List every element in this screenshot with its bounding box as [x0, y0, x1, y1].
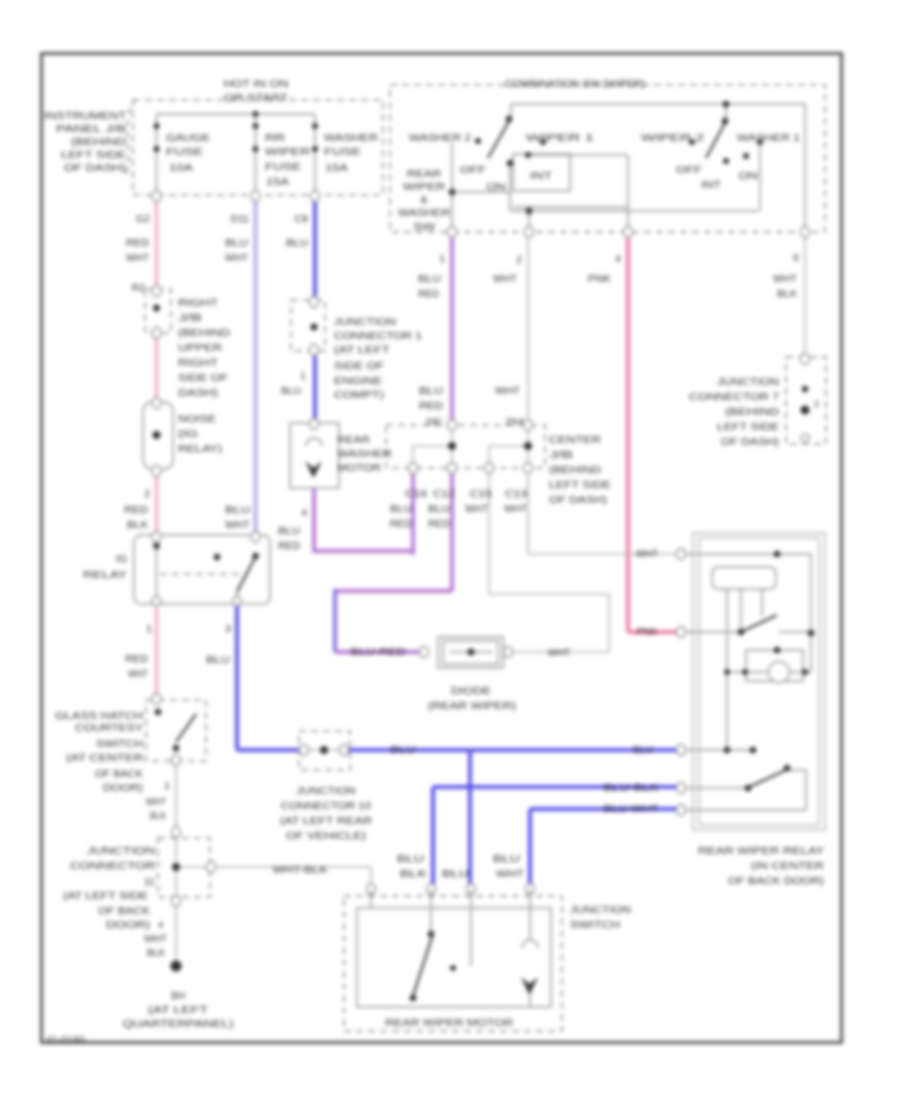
svg-text:DOOR): DOOR)	[103, 782, 143, 794]
svg-text:JUNCTION: JUNCTION	[87, 845, 155, 857]
svg-text:J/B: J/B	[549, 449, 573, 461]
svg-text:CENTER: CENTER	[549, 434, 601, 446]
svg-text:DOOR): DOOR)	[106, 919, 150, 931]
svg-text:REAR: REAR	[407, 168, 441, 180]
svg-text:C13: C13	[505, 488, 527, 500]
svg-text:C16: C16	[405, 488, 427, 500]
svg-text:2: 2	[144, 488, 150, 500]
svg-text:3: 3	[225, 623, 231, 635]
svg-text:RR: RR	[265, 132, 286, 144]
svg-text:DIODE: DIODE	[451, 685, 491, 697]
svg-text:PNK: PNK	[588, 273, 611, 285]
svg-text:(IN CENTER: (IN CENTER	[751, 860, 824, 872]
svg-text:WHT-BLK: WHT-BLK	[273, 865, 328, 876]
svg-text:NOISE: NOISE	[178, 413, 216, 425]
svg-text:OF BACK: OF BACK	[95, 768, 143, 780]
svg-text:BLK: BLK	[400, 868, 427, 880]
svg-text:15A: 15A	[266, 176, 289, 188]
svg-text:CONNECTOR 1: CONNECTOR 1	[334, 330, 422, 342]
svg-text:HOT IN ON: HOT IN ON	[224, 78, 289, 90]
svg-text:RED: RED	[278, 540, 300, 552]
svg-text:11: 11	[144, 876, 155, 888]
svg-text:BLK: BLK	[147, 947, 165, 959]
svg-text:COURTESY: COURTESY	[75, 722, 143, 734]
svg-text:RED: RED	[124, 504, 148, 516]
svg-text:WHT: WHT	[548, 648, 570, 659]
svg-text:FUSE: FUSE	[166, 146, 203, 158]
svg-text:BLU: BLU	[225, 504, 250, 516]
svg-text:JUNCTION: JUNCTION	[297, 785, 356, 797]
svg-text:LEFT SIDE: LEFT SIDE	[549, 479, 611, 491]
svg-text:GAUGE: GAUGE	[166, 132, 210, 144]
svg-text:RED: RED	[390, 518, 412, 530]
svg-text:BLU-BLK: BLU-BLK	[604, 783, 659, 794]
svg-text:UPPER: UPPER	[178, 342, 222, 354]
svg-text:&: &	[420, 194, 427, 206]
svg-text:REAR WIPER MOTOR: REAR WIPER MOTOR	[385, 1017, 513, 1029]
svg-text:1: 1	[146, 623, 152, 635]
svg-text:INT: INT	[530, 170, 553, 182]
svg-text:WIPER: WIPER	[265, 146, 311, 158]
svg-text:BLK: BLK	[777, 288, 797, 300]
svg-text:2: 2	[814, 399, 819, 409]
svg-text:G2: G2	[136, 213, 150, 225]
svg-text:INT: INT	[701, 179, 722, 191]
svg-text:FUSE: FUSE	[265, 161, 301, 173]
svg-text:RELAY: RELAY	[83, 569, 127, 581]
svg-text:41-0160: 41-0160	[46, 1034, 85, 1046]
svg-text:C8: C8	[295, 213, 309, 225]
svg-text:ON: ON	[487, 181, 506, 193]
svg-text:WASHER: WASHER	[324, 132, 378, 144]
svg-text:BLU: BLU	[278, 525, 300, 537]
svg-text:SWITCH: SWITCH	[570, 919, 620, 931]
svg-text:REAR: REAR	[337, 434, 370, 446]
svg-text:BLU: BLU	[206, 654, 230, 666]
svg-text:WHT: WHT	[126, 252, 150, 264]
svg-text:BLK: BLK	[127, 519, 148, 531]
svg-text:WHT: WHT	[225, 252, 249, 264]
svg-text:OR START: OR START	[224, 92, 289, 104]
svg-text:OFF: OFF	[460, 164, 486, 176]
svg-text:(AT CENTER: (AT CENTER	[66, 752, 144, 764]
svg-text:2: 2	[516, 254, 522, 266]
svg-text:WHT: WHT	[504, 503, 528, 515]
svg-text:BLU: BLU	[225, 237, 248, 249]
svg-text:RED: RED	[428, 518, 450, 530]
svg-text:SIDE OF: SIDE OF	[334, 360, 384, 372]
svg-text:LEFT SIDE: LEFT SIDE	[717, 421, 779, 433]
svg-text:ENGINE: ENGINE	[334, 375, 382, 387]
svg-text:SIDE OF: SIDE OF	[178, 372, 228, 384]
svg-text:DASH): DASH)	[178, 387, 218, 399]
svg-text:BLU: BLU	[428, 503, 450, 515]
svg-text:RED: RED	[419, 400, 443, 412]
svg-text:OF BACK: OF BACK	[98, 905, 150, 917]
svg-text:D11: D11	[231, 213, 250, 225]
svg-text:LEFT SIDE: LEFT SIDE	[61, 149, 126, 161]
svg-text:1: 1	[300, 370, 306, 382]
svg-text:BLU-WHT: BLU-WHT	[604, 804, 659, 815]
svg-text:C12: C12	[433, 488, 455, 500]
svg-text:WHT: WHT	[636, 549, 658, 560]
svg-text:BLU: BLU	[281, 385, 301, 397]
svg-text:10A: 10A	[169, 162, 193, 174]
svg-text:OF DASH): OF DASH)	[549, 494, 607, 506]
svg-text:(REAR WIPER): (REAR WIPER)	[428, 700, 516, 712]
svg-text:WIPER 1: WIPER 1	[526, 132, 594, 144]
svg-text:JUNCTION: JUNCTION	[717, 376, 779, 388]
svg-text:JUNCTION: JUNCTION	[570, 904, 631, 916]
svg-text:ON: ON	[739, 170, 758, 182]
svg-text:WIPER: WIPER	[403, 181, 446, 193]
svg-text:REAR WIPER RELAY: REAR WIPER RELAY	[698, 845, 824, 857]
svg-text:BLU: BLU	[493, 853, 520, 865]
svg-text:WASHER: WASHER	[398, 207, 450, 219]
svg-text:(BEHIND: (BEHIND	[549, 464, 601, 476]
svg-text:JUNCTION: JUNCTION	[334, 316, 396, 328]
svg-text:6: 6	[793, 252, 799, 264]
svg-text:15A: 15A	[325, 162, 348, 174]
svg-text:SWITCH: SWITCH	[96, 738, 143, 750]
svg-text:RIGHT: RIGHT	[178, 357, 219, 369]
svg-text:R2: R2	[132, 282, 146, 294]
svg-text:(AT LEFT SIDE: (AT LEFT SIDE	[63, 890, 148, 902]
svg-text:COMBINATION SW (WIPER): COMBINATION SW (WIPER)	[505, 78, 645, 90]
svg-text:OF DASH): OF DASH)	[721, 436, 779, 448]
svg-text:OF BACK DOOR): OF BACK DOOR)	[728, 875, 824, 887]
svg-text:4: 4	[158, 920, 163, 930]
svg-text:WHT: WHT	[495, 385, 521, 397]
svg-text:1: 1	[164, 780, 170, 792]
svg-text:GLASS HATCH: GLASS HATCH	[55, 710, 143, 722]
svg-text:RED: RED	[418, 288, 439, 300]
svg-text:WHT: WHT	[496, 868, 525, 880]
svg-text:1: 1	[439, 253, 445, 265]
svg-text:WHT: WHT	[493, 273, 518, 285]
svg-text:2E: 2E	[425, 417, 443, 427]
svg-text:OF DASH): OF DASH)	[64, 162, 126, 174]
svg-text:(BEHIND: (BEHIND	[178, 327, 230, 339]
svg-text:BLU: BLU	[390, 503, 412, 515]
svg-text:BLU: BLU	[286, 237, 308, 249]
svg-text:RED: RED	[125, 653, 148, 665]
svg-text:(AT LEFT REAR: (AT LEFT REAR	[280, 815, 372, 827]
svg-text:BLU: BLU	[391, 745, 416, 756]
svg-text:(AT LEFT: (AT LEFT	[334, 344, 391, 356]
svg-text:BLU: BLU	[419, 385, 443, 397]
svg-text:FUSE: FUSE	[324, 146, 361, 158]
svg-text:SW: SW	[413, 221, 435, 233]
svg-text:OF VEHICLE): OF VEHICLE)	[286, 830, 366, 842]
svg-text:BLU: BLU	[397, 853, 424, 865]
svg-text:WHT: WHT	[128, 668, 148, 680]
svg-text:INSTRUMENT: INSTRUMENT	[44, 110, 127, 122]
svg-text:CONNECTOR: CONNECTOR	[70, 860, 156, 872]
svg-text:WASHER 2: WASHER 2	[409, 132, 471, 144]
svg-text:MOTOR: MOTOR	[337, 462, 381, 474]
svg-text:WHT: WHT	[465, 503, 489, 515]
svg-text:CONNECTOR 10: CONNECTOR 10	[281, 800, 371, 812]
svg-text:WIPER 2: WIPER 2	[641, 132, 704, 144]
svg-text:WHT: WHT	[146, 796, 166, 808]
svg-text:OFF: OFF	[676, 164, 702, 176]
svg-text:WASHER: WASHER	[337, 448, 392, 460]
svg-text:(IG: (IG	[178, 428, 198, 440]
svg-text:IG: IG	[116, 553, 127, 565]
svg-text:BLK: BLK	[150, 810, 166, 822]
svg-text:RED: RED	[126, 237, 149, 249]
svg-text:BLU: BLU	[418, 273, 441, 285]
svg-text:PNK: PNK	[637, 626, 658, 638]
svg-text:BH: BH	[171, 990, 185, 1002]
svg-text:J/B: J/B	[178, 312, 202, 324]
svg-text:COMPT): COMPT)	[334, 389, 384, 401]
svg-text:BLU-RED: BLU-RED	[351, 647, 406, 658]
svg-text:(AT LEFT: (AT LEFT	[148, 1004, 209, 1016]
svg-text:QUARTERPANEL): QUARTERPANEL)	[123, 1018, 234, 1030]
svg-text:WASHER 1: WASHER 1	[737, 132, 800, 144]
svg-text:BLU: BLU	[442, 868, 469, 880]
svg-text:(BEHIND: (BEHIND	[71, 136, 127, 148]
svg-text:4: 4	[301, 507, 307, 519]
svg-text:WHT: WHT	[144, 933, 168, 945]
svg-text:RELAY): RELAY)	[178, 443, 222, 455]
svg-text:CONNECTOR 7: CONNECTOR 7	[689, 391, 779, 403]
svg-text:C15: C15	[470, 488, 492, 500]
svg-text:(BEHIND: (BEHIND	[725, 406, 780, 418]
svg-text:4: 4	[615, 253, 621, 265]
svg-text:PANEL J/B: PANEL J/B	[56, 123, 126, 135]
svg-text:WHT: WHT	[773, 273, 798, 285]
svg-text:2H: 2H	[505, 416, 523, 428]
svg-text:BLU: BLU	[633, 745, 653, 756]
svg-text:RIGHT: RIGHT	[178, 297, 219, 309]
svg-text:WHT: WHT	[225, 519, 251, 531]
